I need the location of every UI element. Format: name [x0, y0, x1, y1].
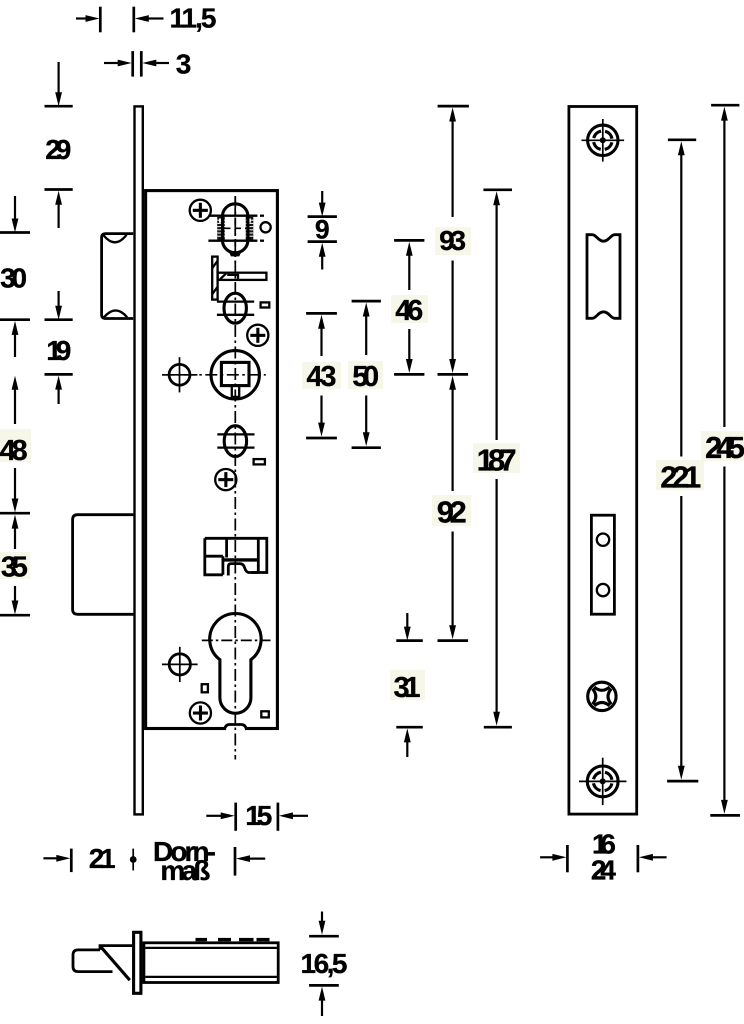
- faceplate side strip: [135, 106, 143, 814]
- cutout hole 2: [597, 584, 609, 596]
- case bottom notch: [225, 727, 247, 732]
- svg-text:48: 48: [0, 435, 28, 467]
- svg-text:29: 29: [45, 134, 71, 165]
- dim 245: [705, 105, 744, 815]
- dim 29: [45, 62, 73, 228]
- screw 3: [215, 469, 236, 490]
- plate outline: [569, 107, 637, 815]
- small rect C: [202, 684, 208, 692]
- svg-text:24: 24: [591, 854, 616, 885]
- deadbolt side: [73, 515, 134, 615]
- dim 221: [660, 140, 701, 781]
- combi screw bottom: [579, 758, 626, 805]
- latch opening: [587, 235, 620, 319]
- euro cylinder hole: [210, 614, 261, 714]
- aux latch wedge: [229, 251, 242, 256]
- svg-text:9: 9: [315, 215, 330, 245]
- T lever arm: [218, 273, 267, 280]
- body inner lines: [145, 947, 277, 949]
- dim 43: [306, 313, 337, 438]
- handle hole cross circle: [162, 357, 198, 392]
- main vertical centerline: [234, 196, 236, 760]
- aux latch spring bars: [217, 217, 253, 240]
- cylinder fixing hole cross circle: [162, 647, 198, 682]
- upper hub oval: [224, 293, 246, 323]
- svg-text:46: 46: [395, 295, 423, 327]
- screw top-left: [190, 200, 211, 221]
- small rect A: [261, 302, 270, 307]
- dim 35: [0, 515, 30, 616]
- latch head step/top: [100, 946, 132, 950]
- dim 93 and 92: [437, 106, 469, 641]
- latch body: [144, 943, 278, 983]
- latch head: [73, 950, 113, 972]
- svg-text:15: 15: [245, 800, 272, 831]
- svg-text:11,5: 11,5: [170, 3, 217, 34]
- small circle hole: [261, 222, 271, 232]
- small rect B: [254, 459, 265, 464]
- follower circle: [211, 351, 259, 399]
- latch bolt front: [102, 234, 134, 319]
- lower hub oval: [224, 426, 246, 457]
- follower square: [221, 362, 249, 385]
- svg-text:19: 19: [46, 335, 71, 366]
- svg-text:187: 187: [477, 443, 517, 478]
- svg-text:93: 93: [439, 225, 466, 256]
- combi screw top: [582, 119, 625, 162]
- upper hub chords: [217, 300, 254, 302]
- latch bevel: [101, 947, 130, 980]
- dim 11,5: [76, 3, 217, 34]
- highlight boxes: [0, 227, 744, 700]
- dim 31: [394, 613, 423, 757]
- svg-text:16,5: 16,5: [301, 948, 348, 979]
- aux latch plates: [208, 215, 257, 217]
- cylinder horizontal centerline: [202, 639, 271, 641]
- aux latch oval: [223, 204, 248, 253]
- screw 4: [190, 702, 211, 723]
- dim 3: [104, 48, 191, 79]
- svg-text:31: 31: [394, 672, 421, 704]
- dim 9: [308, 191, 337, 270]
- dim 30: [0, 196, 30, 357]
- svg-text:30: 30: [0, 263, 27, 294]
- svg-text:3: 3: [176, 48, 192, 79]
- dim 16 24: [540, 828, 667, 885]
- stop block: [205, 538, 267, 575]
- svg-text:92: 92: [437, 495, 467, 530]
- svg-text:35: 35: [1, 552, 28, 584]
- svg-text:245: 245: [705, 430, 744, 465]
- svg-text:43: 43: [307, 361, 337, 393]
- dim 48: [0, 376, 30, 513]
- dim 46: [394, 240, 424, 374]
- flange faceplate section: [134, 932, 141, 993]
- vertical dash line through aux latch: [234, 198, 236, 264]
- T lever vertical bar: [212, 257, 217, 300]
- body top dashes: [196, 938, 270, 941]
- svg-text:21: 21: [89, 843, 116, 874]
- follower notch: [232, 385, 239, 397]
- dim 187: [477, 190, 517, 727]
- svg-text:maß: maß: [160, 855, 210, 886]
- deadbolt cutout: [591, 515, 614, 614]
- dim 16,5: [301, 912, 348, 1017]
- svg-text:50: 50: [352, 361, 379, 393]
- dim 50: [352, 301, 381, 448]
- dim 21 and Dornmass: [43, 836, 265, 886]
- lower hub chords: [217, 433, 254, 435]
- screw 2: [247, 325, 268, 346]
- dim 19: [45, 291, 73, 404]
- svg-text:221: 221: [660, 459, 701, 494]
- dim 15: [206, 800, 308, 831]
- torx screw: [588, 682, 616, 710]
- lock case: [146, 191, 278, 729]
- small rect D: [261, 711, 269, 717]
- cutout hole 1: [597, 534, 609, 546]
- follower horizontal centerline: [162, 374, 265, 376]
